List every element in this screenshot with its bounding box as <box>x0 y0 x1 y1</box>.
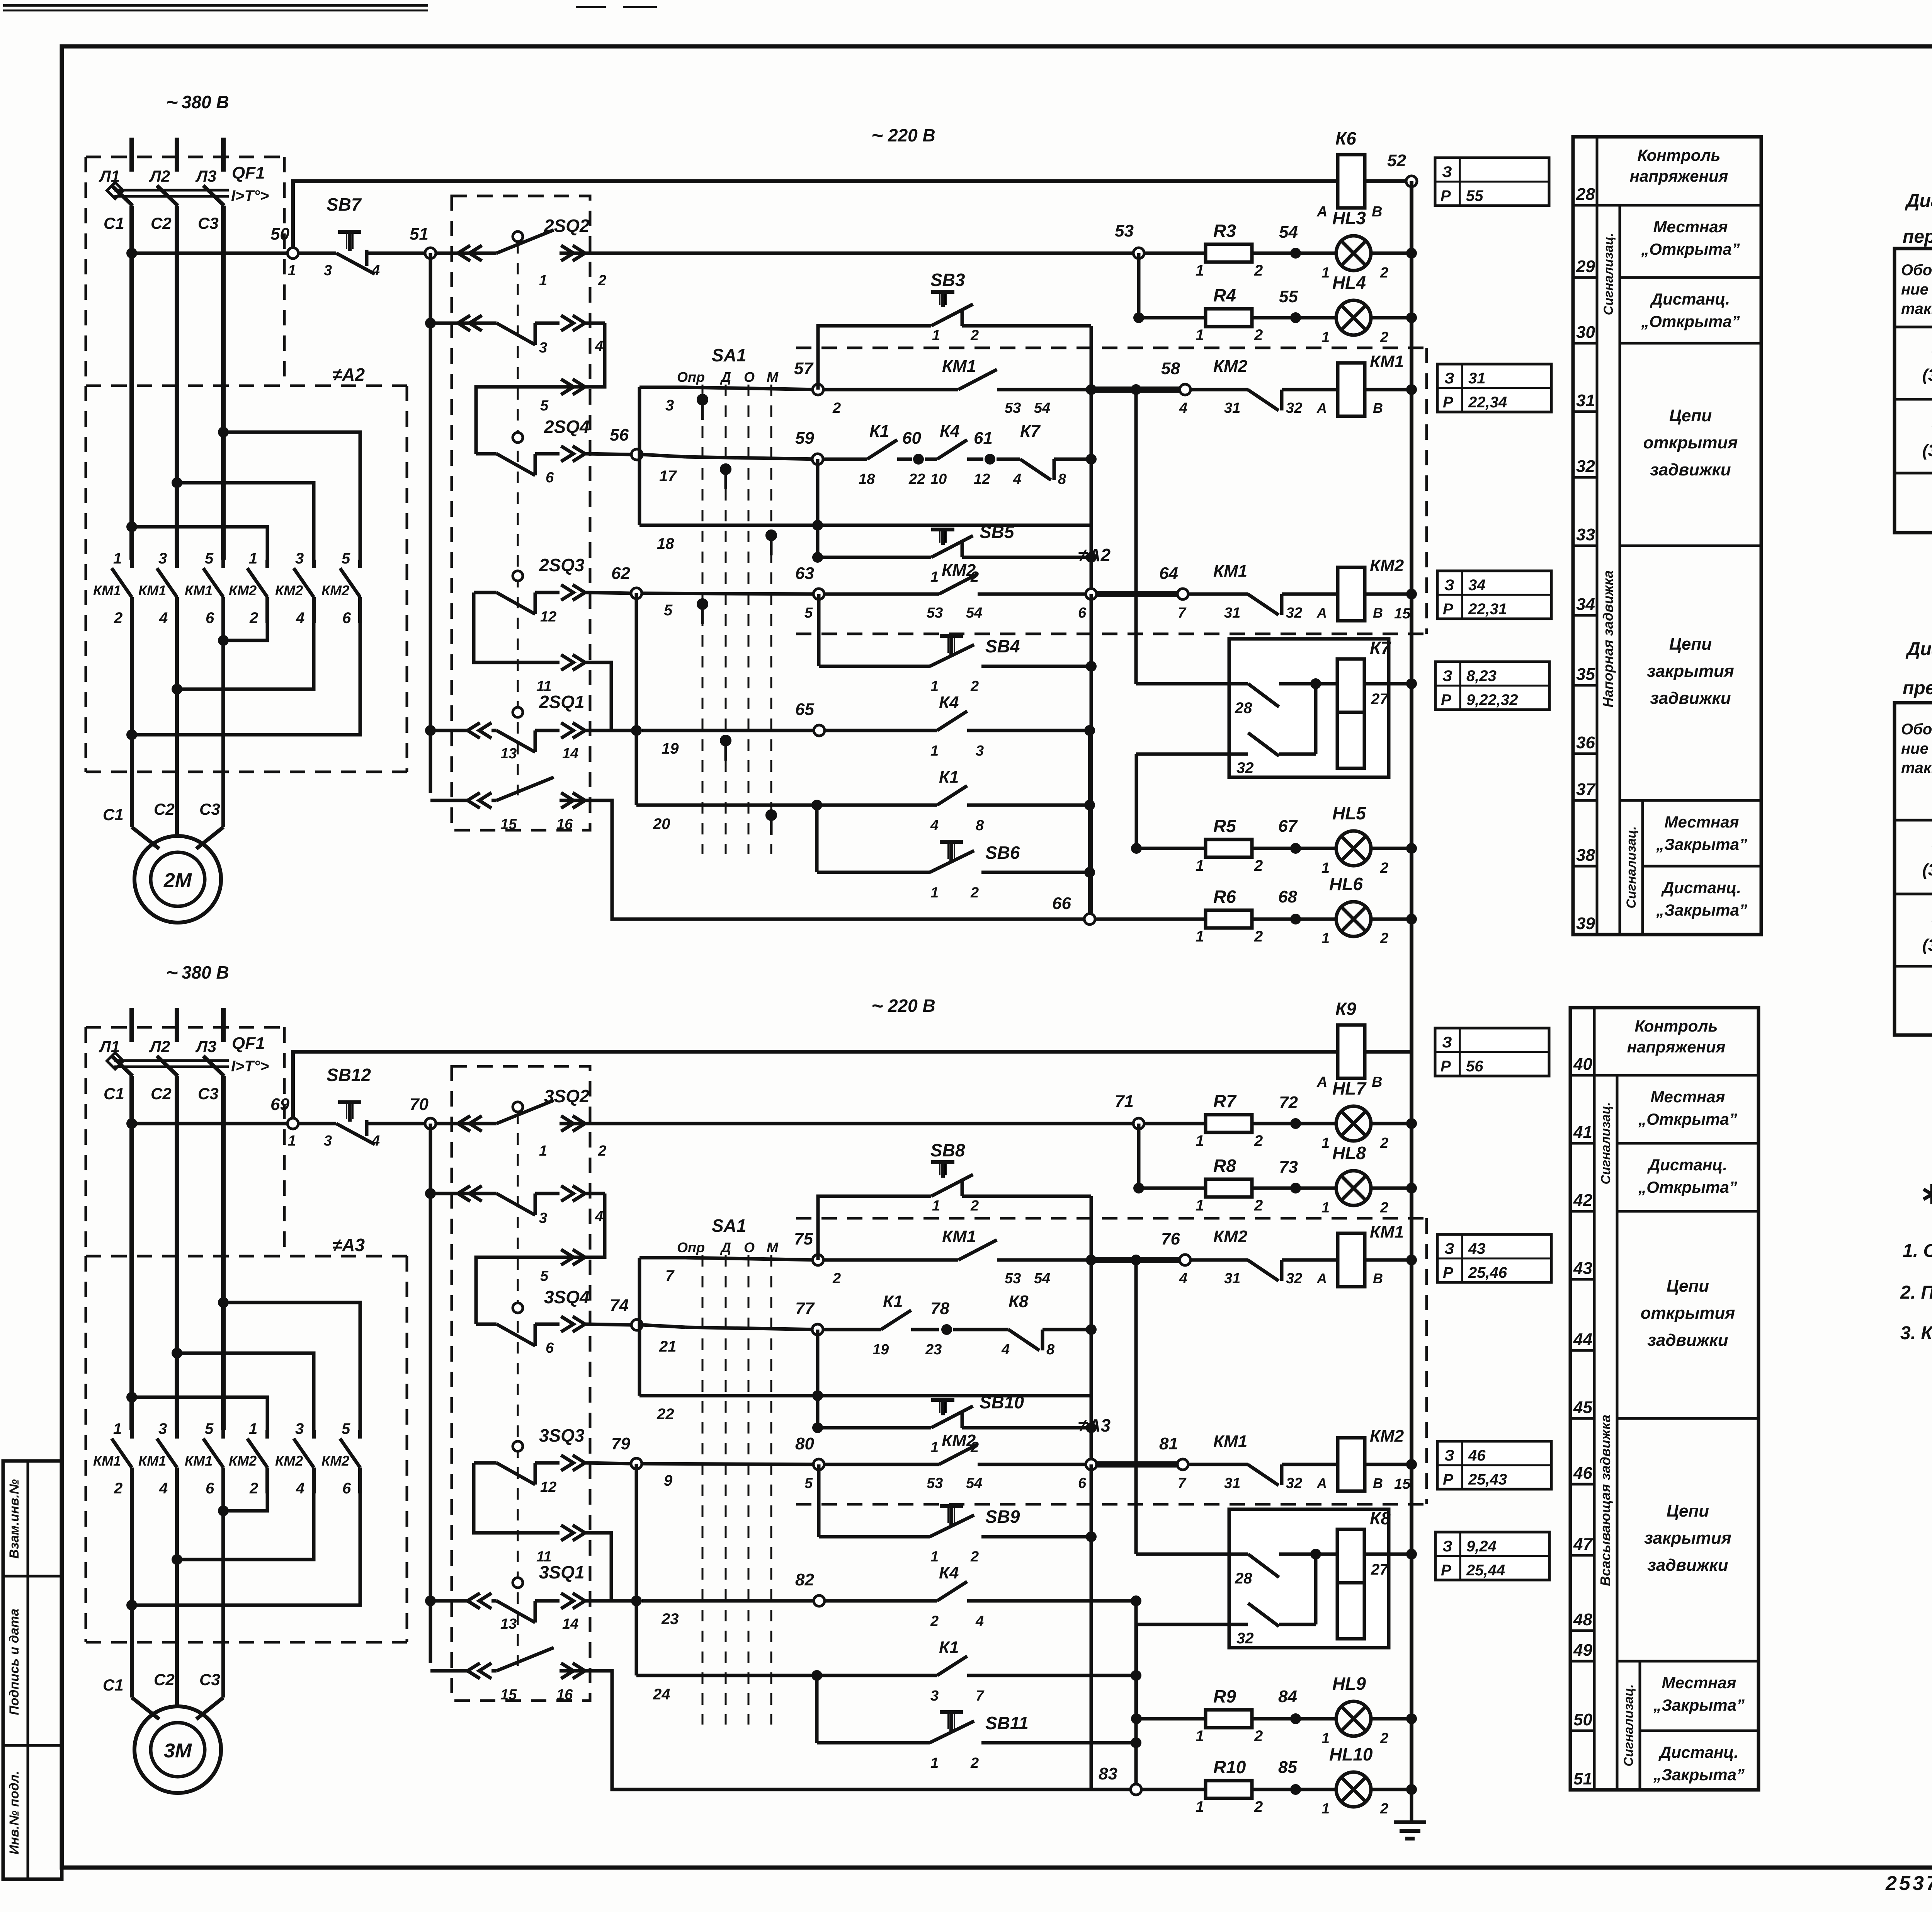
top-left margin rules <box>3 5 657 10</box>
svg-text:~: ~ <box>166 962 178 984</box>
svg-text:54: 54 <box>966 605 982 621</box>
svg-text:С2: С2 <box>154 800 175 818</box>
wire number 19 <box>662 740 679 757</box>
svg-text:КМ1: КМ1 <box>942 357 976 376</box>
svg-text:А: А <box>1316 605 1327 621</box>
svg-text:1: 1 <box>539 272 547 289</box>
power label ~220V <box>871 995 935 1017</box>
svg-text:КМ1: КМ1 <box>138 582 166 598</box>
svg-text:задвижки: задвижки <box>1647 1331 1728 1350</box>
svg-text:R4: R4 <box>1213 285 1236 305</box>
svg-text:С1: С1 <box>103 1676 124 1694</box>
svg-text:75: 75 <box>794 1229 813 1248</box>
resistor R6 <box>1196 887 1263 945</box>
svg-text:14: 14 <box>562 1616 578 1632</box>
strip Signalizats (top) <box>1601 205 1620 343</box>
svg-text:К9: К9 <box>1335 999 1356 1019</box>
svg-text:31: 31 <box>1576 391 1595 410</box>
svg-text:2. Перечень элементов и пояс: 2. Перечень элементов и пояснения к схем… <box>1900 1282 1932 1303</box>
svg-text:Местная: Местная <box>1664 813 1739 831</box>
svg-text:1. Схему управления насосом: 1. Схему управления насосом см. лист 1. <box>1903 1241 1932 1261</box>
svg-text:25379-02: 25379-02 <box>1885 1872 1932 1895</box>
svg-text:1: 1 <box>1196 327 1204 344</box>
svg-text:83: 83 <box>1099 1764 1117 1783</box>
svg-text:6: 6 <box>1078 1475 1087 1491</box>
svg-text:84: 84 <box>1278 1687 1297 1706</box>
svg-text:27: 27 <box>1371 1561 1389 1578</box>
svg-text:Обозначе-: Обозначе- <box>1901 721 1932 738</box>
node 61 <box>974 429 995 465</box>
svg-text:А: А <box>1316 1475 1327 1491</box>
svg-text:4: 4 <box>159 610 168 627</box>
svg-text:3SQ1: 3SQ1 <box>539 1562 585 1582</box>
wire number 20 <box>653 816 670 833</box>
svg-text:9,24: 9,24 <box>1466 1538 1497 1555</box>
svg-text:Дистанц.: Дистанц. <box>1647 1156 1727 1174</box>
contactor main contacts KM1/KM2 bank <box>93 1420 360 1497</box>
svg-text:15: 15 <box>1394 606 1411 622</box>
node 70 <box>410 1095 436 1129</box>
wire number 17 <box>659 468 677 485</box>
link table З43 Р25,46 <box>1437 1234 1551 1282</box>
svg-text:R3: R3 <box>1213 221 1236 241</box>
circuit breaker QF1 (3M feeder) poles <box>107 1008 229 1430</box>
wire 18 branch with SB5 loop <box>685 459 931 563</box>
circuit breaker QF1 (2M feeder) poles <box>107 138 229 560</box>
lamp HL5 <box>1296 803 1417 876</box>
svg-text:КМ1: КМ1 <box>185 582 213 598</box>
svg-text:2: 2 <box>1380 1801 1388 1817</box>
svg-text:2: 2 <box>832 1270 841 1287</box>
svg-text:7: 7 <box>1178 1475 1187 1491</box>
svg-text:4: 4 <box>296 610 304 627</box>
loop bracket vertical <box>1090 1196 1093 1789</box>
svg-text:220 В: 220 В <box>888 996 935 1016</box>
svg-text:Сигнализац.: Сигнализац. <box>1599 1102 1613 1185</box>
contactor coil KM1 <box>1316 1222 1417 1287</box>
svg-text:предельного момента 2SQ3, 2SQ4: предельного момента 2SQ3, 2SQ4, 3SQ3, 3S… <box>1903 678 1932 698</box>
right bus vertical <box>1410 181 1413 919</box>
svg-text:Дистанц.: Дистанц. <box>1650 290 1730 308</box>
svg-text:30: 30 <box>1576 323 1595 342</box>
svg-text:2: 2 <box>1254 1728 1263 1745</box>
svg-text:~: ~ <box>166 91 178 114</box>
svg-text:54: 54 <box>1034 1270 1050 1287</box>
dashed enclosure А3 coils <box>796 1218 1427 1504</box>
svg-text:1: 1 <box>930 1439 939 1456</box>
svg-text:1: 1 <box>930 569 939 585</box>
svg-text:„Открыта”: „Открыта” <box>1638 1110 1737 1128</box>
wire number 7 <box>665 1267 675 1284</box>
stop button SB4 parallel branch <box>819 594 1097 695</box>
svg-text:54: 54 <box>1034 400 1050 416</box>
svg-text:R6: R6 <box>1213 887 1236 907</box>
svg-text:КМ1: КМ1 <box>1370 352 1404 371</box>
bracket vertical to lamp rows <box>1134 1601 1138 1789</box>
labels C1 C2 C3 (top) <box>104 214 219 232</box>
dashed enclosure А2 coils <box>796 348 1427 634</box>
svg-text:≠А3: ≠А3 <box>332 1235 365 1255</box>
svg-text:Л1: Л1 <box>99 167 120 185</box>
svg-text:220 В: 220 В <box>888 125 935 145</box>
limit switch 3SQ2 contact 3-4 <box>425 1124 605 1663</box>
svg-text:5: 5 <box>205 1420 214 1437</box>
svg-text:5: 5 <box>664 602 673 619</box>
svg-text:Подпись и дата: Подпись и дата <box>7 1609 22 1715</box>
row-index numbers <box>1570 1055 1594 1788</box>
svg-text:2: 2 <box>1380 860 1388 876</box>
relay contact К1 row <box>636 1638 1141 1704</box>
cross links below contact bank <box>126 623 360 740</box>
selector SA1 closed-contact dots <box>697 394 777 835</box>
svg-text:1: 1 <box>249 550 257 567</box>
svg-text:2: 2 <box>1380 1135 1388 1151</box>
svg-text:„Закрыта”: „Закрыта” <box>1653 1766 1745 1784</box>
link table З/Р56 <box>1435 1028 1549 1076</box>
svg-text:73: 73 <box>1279 1158 1298 1176</box>
relay contact K1 (19-23) <box>823 1292 942 1358</box>
selector SA1 closed-contact dots <box>697 394 777 835</box>
svg-text:13: 13 <box>500 746 517 762</box>
svg-text:К7: К7 <box>1370 638 1391 658</box>
svg-text:КМ2: КМ2 <box>229 1453 257 1469</box>
breaker trip label I>T <box>231 187 269 204</box>
lamp HL4 <box>1296 272 1417 346</box>
svg-text:SB6: SB6 <box>985 843 1020 863</box>
svg-text:3: 3 <box>976 743 984 759</box>
svg-text:Контроль: Контроль <box>1635 1017 1718 1035</box>
svg-text:7: 7 <box>665 1267 675 1284</box>
svg-text:КМ2: КМ2 <box>942 561 976 580</box>
svg-text:R7: R7 <box>1213 1091 1237 1111</box>
svg-text:1: 1 <box>1196 1798 1204 1815</box>
svg-text:КМ1: КМ1 <box>1213 562 1247 581</box>
svg-text:Дистанц.: Дистанц. <box>1661 879 1741 897</box>
svg-text:2: 2 <box>1254 857 1263 874</box>
contactor KM1 auxiliary contact 53-54 (hold) <box>823 357 1091 416</box>
limit switch 3SQ2 contact 1-2 <box>436 1086 1139 1159</box>
table2 frame <box>1895 703 1932 1035</box>
wire number 21 <box>659 1338 677 1355</box>
svg-text:32: 32 <box>1286 400 1302 416</box>
svg-text:~: ~ <box>871 995 883 1017</box>
svg-text:КМ2: КМ2 <box>321 1453 349 1469</box>
svg-text:Дистанц.: Дистанц. <box>1658 1743 1738 1761</box>
svg-text:22: 22 <box>656 1406 674 1423</box>
svg-text:66: 66 <box>1052 894 1071 913</box>
svg-text:50: 50 <box>270 225 289 243</box>
node 66 lamp row HL6 <box>1052 894 1206 925</box>
svg-text:С3: С3 <box>198 214 219 232</box>
svg-text:SB4: SB4 <box>985 636 1020 656</box>
contactor coil KM2 <box>1316 1427 1417 1492</box>
dashed enclosure limit switch box <box>452 1066 590 1701</box>
svg-text:25,46: 25,46 <box>1468 1264 1507 1281</box>
svg-text:тактов: тактов <box>1901 759 1932 776</box>
svg-text:27: 27 <box>1371 691 1389 708</box>
node <box>1365 1050 1412 1054</box>
svg-text:77: 77 <box>795 1299 815 1318</box>
svg-text:I>T°>: I>T°> <box>231 187 269 204</box>
svg-text:Р: Р <box>1441 691 1451 708</box>
svg-text:32: 32 <box>1286 605 1302 621</box>
svg-text:67: 67 <box>1278 817 1298 836</box>
link table З9,24 Р25,44 <box>1435 1532 1549 1580</box>
wire number 3 <box>665 397 674 414</box>
svg-text:К1: К1 <box>939 768 959 787</box>
cross links below contact bank <box>126 1493 360 1611</box>
wire number 22 <box>656 1406 674 1423</box>
svg-text:КМ2: КМ2 <box>275 582 303 598</box>
svg-text:31: 31 <box>1224 1270 1240 1287</box>
stop button SB12 <box>298 1065 430 1149</box>
svg-text:3: 3 <box>539 340 547 356</box>
limit switch 3SQ3 contact 11-12 loop <box>474 1425 631 1601</box>
svg-text:С1: С1 <box>104 1085 124 1103</box>
note 3 <box>1900 1323 1932 1343</box>
cell Mestnaya Otkryta <box>1617 1088 1759 1143</box>
svg-text:З: З <box>1442 1034 1452 1051</box>
svg-text:К8: К8 <box>1009 1292 1029 1311</box>
limit switch 3SQ1 contact 15-16 <box>430 1648 1131 1789</box>
row-index numbers <box>1573 185 1597 933</box>
node 71 lamp row HL7 <box>1115 1092 1206 1129</box>
svg-text:открытия: открытия <box>1641 1304 1735 1323</box>
svg-text:HL7: HL7 <box>1332 1078 1367 1098</box>
left sidebar stamp boxes <box>3 1461 62 1879</box>
svg-text:2SQ4: 2SQ4 <box>544 417 590 437</box>
svg-text:37: 37 <box>1576 780 1596 799</box>
svg-text:1: 1 <box>1321 1730 1330 1747</box>
selector SA1 labels <box>677 345 779 385</box>
svg-text:2: 2 <box>1254 1798 1263 1815</box>
svg-text:2: 2 <box>970 678 979 695</box>
svg-text:3: 3 <box>324 262 332 279</box>
svg-text:22,34: 22,34 <box>1468 394 1507 411</box>
svg-text:R8: R8 <box>1213 1156 1236 1176</box>
svg-text:1: 1 <box>930 1755 939 1771</box>
labels L1 L2 L3 QF1 <box>99 1034 265 1056</box>
svg-text:Сигнализац.: Сигнализац. <box>1624 826 1639 909</box>
relay contact К1 row <box>636 768 1095 834</box>
svg-text:С1: С1 <box>104 214 124 232</box>
svg-text:51: 51 <box>1573 1769 1592 1788</box>
svg-text:44: 44 <box>1573 1330 1592 1349</box>
svg-text:28: 28 <box>1235 1570 1252 1587</box>
node 76 and wire to coil <box>1086 1229 1190 1287</box>
svg-text:6: 6 <box>206 610 214 627</box>
svg-text:82: 82 <box>795 1570 814 1589</box>
svg-text:1: 1 <box>932 1198 940 1214</box>
svg-text:2: 2 <box>114 1480 122 1497</box>
svg-text:КМ1: КМ1 <box>942 1227 976 1246</box>
svg-text:КМ1: КМ1 <box>1213 1432 1247 1451</box>
node 50 <box>126 225 298 279</box>
svg-text:15: 15 <box>500 1687 517 1703</box>
svg-text:1: 1 <box>1196 1132 1204 1149</box>
svg-text:закрытия: закрытия <box>1647 662 1734 681</box>
svg-text:53: 53 <box>1115 221 1134 240</box>
svg-text:HL5: HL5 <box>1332 803 1366 823</box>
svg-text:61: 61 <box>974 429 993 448</box>
svg-text:5: 5 <box>540 398 549 414</box>
svg-text:22,31: 22,31 <box>1468 601 1507 618</box>
strip Signalizats (bottom) <box>1624 800 1643 935</box>
dashed enclosure limit switch box <box>452 196 590 830</box>
lamp row HL5 <box>1136 847 1206 850</box>
cell Mestnaya Otkryta <box>1620 218 1761 278</box>
svg-text:34: 34 <box>1576 595 1595 614</box>
note asterisk meaning <box>1923 1184 1932 1206</box>
svg-text:56: 56 <box>1466 1058 1483 1075</box>
svg-text:6: 6 <box>1078 605 1087 621</box>
start button SB3 parallel branch <box>818 270 1091 390</box>
node 56 <box>610 426 642 460</box>
lamp row HL8 <box>1133 1124 1206 1194</box>
bottom margin texts <box>1885 1870 1932 1904</box>
svg-text:Местная: Местная <box>1653 218 1728 236</box>
svg-text:Р: Р <box>1443 601 1453 618</box>
svg-text:55: 55 <box>1279 287 1298 306</box>
svg-text:45: 45 <box>1573 1398 1592 1417</box>
svg-text:5: 5 <box>205 550 214 567</box>
svg-text:В: В <box>1373 400 1383 416</box>
svg-text:32: 32 <box>1236 1630 1254 1647</box>
svg-text:5: 5 <box>342 550 350 567</box>
svg-text:85: 85 <box>1278 1758 1297 1777</box>
svg-text:С2: С2 <box>151 214 172 232</box>
node 52 <box>1365 151 1417 187</box>
start button SB11 branch <box>817 1675 1141 1771</box>
svg-text:32: 32 <box>1236 759 1254 776</box>
svg-text:К4: К4 <box>939 1563 959 1582</box>
svg-text:9: 9 <box>664 1472 673 1489</box>
svg-text:„Закрыта”: „Закрыта” <box>1653 1696 1745 1714</box>
svg-text:31: 31 <box>1224 1475 1240 1491</box>
svg-text:Диаграмма работы контактов муф: Диаграмма работы контактов муфты <box>1905 639 1932 659</box>
svg-text:SA1: SA1 <box>712 1216 746 1236</box>
svg-text:Л3: Л3 <box>195 167 216 185</box>
svg-text:2: 2 <box>598 272 606 289</box>
svg-text:43: 43 <box>1573 1259 1592 1278</box>
lamp HL10 <box>1296 1744 1417 1817</box>
svg-text:79: 79 <box>611 1434 630 1453</box>
svg-text:5: 5 <box>540 1268 549 1284</box>
stop button SB7 <box>298 194 430 279</box>
svg-text:С2: С2 <box>154 1670 175 1689</box>
svg-text:8,23: 8,23 <box>1466 667 1497 684</box>
relay contact K7 NC (4-8) <box>997 422 1097 487</box>
svg-text:2: 2 <box>1254 928 1263 945</box>
cell Kontrol napryazheniya <box>1594 1017 1759 1075</box>
svg-text:2: 2 <box>1254 1197 1263 1214</box>
svg-text:4: 4 <box>595 1209 603 1225</box>
wire 18 branch with SB5 loop <box>685 1330 931 1433</box>
svg-text:Напорная задвижка: Напорная задвижка <box>1600 570 1616 708</box>
limit switch 2SQ1 contact 15-16 <box>430 777 1084 919</box>
svg-text:2М: 2М <box>163 869 192 892</box>
svg-text:10: 10 <box>930 471 947 487</box>
motor 3М <box>132 1476 223 1793</box>
limit switch linkage dashed line <box>517 242 519 795</box>
svg-text:SB9: SB9 <box>985 1507 1020 1527</box>
svg-text:1: 1 <box>1196 928 1204 945</box>
strip valve name vertical <box>1600 343 1620 935</box>
svg-text:напряжения: напряжения <box>1627 1038 1726 1056</box>
svg-text:50: 50 <box>1573 1710 1592 1729</box>
svg-text:58: 58 <box>1161 359 1180 378</box>
svg-text:ние кон-: ние кон- <box>1901 740 1932 757</box>
svg-text:25,44: 25,44 <box>1466 1562 1505 1579</box>
svg-text:HL9: HL9 <box>1332 1674 1366 1694</box>
svg-text:9,22,32: 9,22,32 <box>1466 691 1518 708</box>
svg-text:(3SQ1): (3SQ1) <box>1922 441 1932 460</box>
svg-text:2: 2 <box>970 885 979 901</box>
table1 headers <box>1901 262 1932 317</box>
stop button SB9 parallel branch <box>819 1464 1097 1565</box>
node 54 <box>1252 223 1301 259</box>
svg-text:К1: К1 <box>939 1638 959 1657</box>
lamp HL3 <box>1296 208 1417 281</box>
node 77 row <box>685 1299 823 1335</box>
svg-text:1: 1 <box>113 1420 122 1437</box>
node 79 <box>611 1434 673 1489</box>
limit switch linkage dashed line <box>517 1112 519 1666</box>
resistor R10 <box>1196 1757 1263 1815</box>
svg-text:Р: Р <box>1443 1264 1453 1281</box>
svg-text:HL6: HL6 <box>1329 874 1363 894</box>
svg-text:41: 41 <box>1573 1123 1592 1142</box>
svg-text:3: 3 <box>665 397 674 414</box>
node 85 <box>1252 1758 1301 1795</box>
node 51 <box>410 225 436 259</box>
svg-text:Инв.№ подл.: Инв.№ подл. <box>7 1771 22 1855</box>
svg-text:2: 2 <box>1380 329 1388 346</box>
link table З46 Р25,43 <box>1437 1441 1551 1489</box>
node 74 <box>610 1296 642 1330</box>
svg-text:Р: Р <box>1443 394 1453 411</box>
svg-text:3SQ2: 3SQ2 <box>544 1086 590 1106</box>
cell Tsepi otkrytiya zadvizhki <box>1620 406 1761 546</box>
row-index table frame <box>1573 137 1761 935</box>
relay К7 contact 28 and coil <box>1131 384 1417 768</box>
svg-text:68: 68 <box>1278 887 1297 906</box>
svg-text:23: 23 <box>661 1611 679 1628</box>
cell Mestnaya Zakryta <box>1643 813 1761 866</box>
svg-text:1: 1 <box>1196 262 1204 279</box>
svg-text:В: В <box>1372 204 1382 220</box>
svg-text:З: З <box>1444 577 1454 594</box>
svg-text:12: 12 <box>974 471 990 487</box>
svg-text:29: 29 <box>1576 257 1595 276</box>
feed taps from phases to KM2 contacts <box>126 427 360 560</box>
svg-text:8: 8 <box>976 817 984 834</box>
svg-text:1: 1 <box>288 1133 296 1149</box>
svg-text:3: 3 <box>930 1688 939 1704</box>
node 58 and wire to coil <box>1086 359 1190 416</box>
svg-text:~: ~ <box>871 124 883 147</box>
svg-text:1: 1 <box>1321 1801 1330 1817</box>
svg-text:46: 46 <box>1573 1464 1592 1483</box>
relay coil К9 <box>1316 999 1382 1090</box>
svg-text:Л2: Л2 <box>149 1037 170 1056</box>
svg-text:6: 6 <box>546 470 554 486</box>
svg-text:К1: К1 <box>869 422 889 441</box>
breaker trip label I>T <box>231 1058 269 1075</box>
svg-text:17: 17 <box>659 468 677 485</box>
svg-text:В: В <box>1373 1270 1383 1286</box>
svg-text:1: 1 <box>930 1549 939 1565</box>
